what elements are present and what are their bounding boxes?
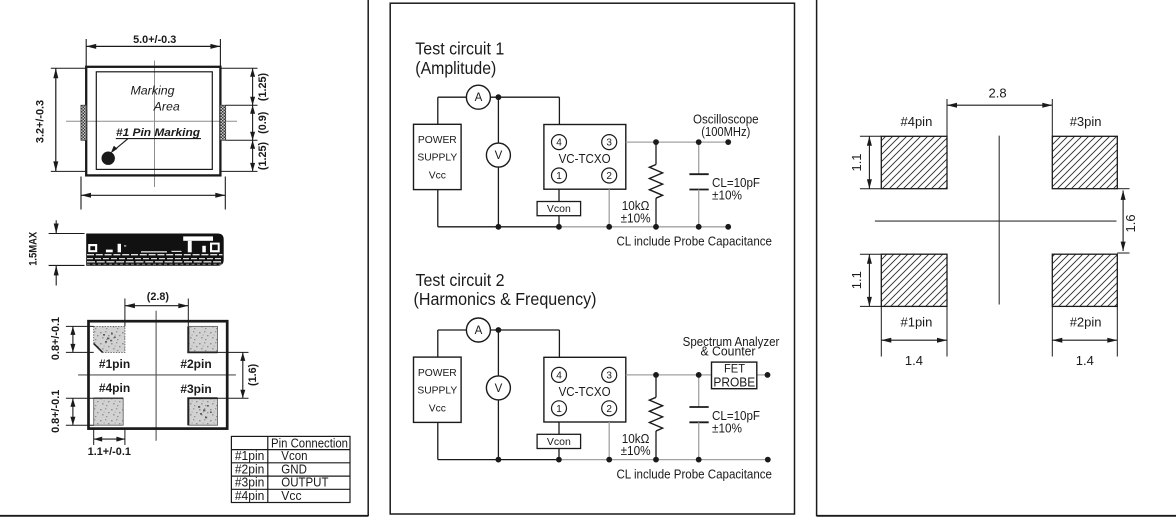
wire: Vcon to rail (circuit 1): [558, 216, 560, 227]
VC-TCXO pin 3: [602, 367, 617, 382]
svg-text:Vcc: Vcc: [281, 488, 302, 503]
svg-text:A: A: [475, 92, 483, 104]
svg-text:±10%: ±10%: [712, 421, 742, 435]
capacitor C1 bottom lead, gray: [698, 190, 700, 227]
svg-text:#2pin: #2pin: [180, 357, 211, 371]
svg-text:2.8: 2.8: [989, 86, 1007, 101]
resistor R2 zigzag: [649, 397, 662, 431]
FET PROBE box: [712, 362, 757, 389]
voltmeter V (circuit 2): [486, 376, 510, 400]
svg-text:CL include Probe Capacitance: CL include Probe Capacitance: [616, 235, 772, 249]
Vcon box (circuit 1): [537, 202, 581, 216]
pad #3 inner edge shadow: [187, 398, 189, 426]
land 2.8 dimension line: [947, 104, 1052, 106]
power supply box (circuit 1): [414, 124, 462, 189]
svg-text:POWER: POWER: [418, 368, 457, 379]
svg-text:(1.25): (1.25): [257, 73, 269, 102]
ground rail junction nodes (circuit 2): [496, 457, 502, 463]
svg-text:SUPPLY: SUPPLY: [417, 153, 457, 164]
svg-text:A: A: [475, 325, 483, 337]
bottom unlabeled dimension line (across castellations): [81, 194, 225, 196]
wire: power supply to ammeter (circuit 1): [438, 96, 467, 98]
land 1.1 upper dimension line: [868, 136, 870, 188]
Vcon box (circuit 2): [537, 434, 581, 448]
rail terminal nodes (circuit 2): [765, 457, 771, 463]
svg-text:Test circuit 1: Test circuit 1: [415, 39, 504, 59]
land 2.8 extension lines: [946, 99, 948, 136]
land 1.4 left dimension line: [881, 339, 947, 341]
left panel frame border: [367, 0, 369, 516]
1.1 dimension line: [94, 438, 125, 440]
svg-text:(1.6): (1.6): [247, 363, 259, 386]
1.5MAX dimension extension lines: [49, 233, 85, 235]
right panel frame border: [816, 0, 818, 516]
svg-text:(100MHz): (100MHz): [701, 125, 750, 139]
bottom view vertical centerline: [155, 311, 157, 441]
svg-text:POWER: POWER: [418, 135, 457, 146]
voltmeter V (circuit 1): [486, 143, 510, 167]
VC-TCXO pin 1: [552, 401, 567, 416]
svg-text:Vcc: Vcc: [429, 404, 446, 415]
svg-text:3: 3: [606, 370, 612, 381]
land pad #4 (top-left, hatched): [881, 136, 947, 188]
svg-text:(0.9): (0.9): [257, 111, 269, 134]
pad #3 dense speckle cluster: [198, 405, 212, 418]
land pad #2 (bottom-right, hatched): [1052, 254, 1117, 306]
resistor R1 zigzag: [649, 165, 662, 199]
right castellation (hatched): [220, 105, 226, 140]
wire: ammeter to VC-TCXO (circuit 2): [490, 329, 559, 331]
#1 pin marking dot: [102, 152, 115, 165]
pad #4 (bottom-left): [94, 398, 124, 425]
land pad #3 (top-right, hatched): [1052, 136, 1117, 188]
svg-text:VC-TCXO: VC-TCXO: [559, 384, 611, 399]
svg-text:CL include Probe Capacitance: CL include Probe Capacitance: [616, 467, 772, 481]
dimension 5.0 extension lines: [85, 39, 87, 67]
output rail from pin 3, gray (circuit 1): [626, 141, 728, 143]
svg-text:#4pin: #4pin: [235, 488, 265, 503]
bottom dimension extension lines: [80, 177, 82, 210]
ammeter A (circuit 1): [466, 85, 490, 109]
dimension (0.9) line: [252, 105, 254, 140]
wire: pin 2 down to rail, gray (circuit 1): [608, 189, 610, 227]
capacitor C2 top lead, gray: [698, 375, 700, 407]
VC-TCXO pin 3: [602, 135, 617, 150]
marking area inner rectangle: [96, 72, 212, 170]
svg-text:(1.25): (1.25): [257, 142, 269, 171]
svg-text:±10%: ±10%: [712, 189, 742, 203]
dimension 5.0 line: [86, 45, 220, 47]
output rail junction nodes (circuit 2): [653, 372, 659, 378]
svg-text:#4pin: #4pin: [99, 381, 130, 395]
rail terminal nodes (circuit 1): [725, 224, 731, 230]
VC-TCXO pin 1: [552, 168, 567, 183]
resistor R1 10k leads: [655, 142, 657, 164]
svg-text:#1 Pin Marking: #1 Pin Marking: [116, 127, 200, 139]
land pattern crosshair horizontal: [875, 220, 1117, 222]
svg-text:5.0+/-0.3: 5.0+/-0.3: [133, 34, 176, 46]
svg-text:(Amplitude): (Amplitude): [415, 58, 496, 78]
svg-text:#1pin: #1pin: [900, 315, 932, 330]
0.8 lower dimension line: [72, 398, 74, 425]
svg-text:PROBE: PROBE: [713, 375, 755, 389]
ammeter A (circuit 2): [466, 318, 490, 342]
right side chain dimension extension lines: [220, 67, 257, 69]
resistor R2 10k leads: [655, 375, 657, 397]
capacitor C2 plates: [689, 406, 708, 408]
VC-TCXO pin 2: [602, 168, 617, 183]
svg-text:2: 2: [606, 404, 612, 415]
svg-text:#4pin: #4pin: [900, 114, 932, 129]
top view horizontal centerline: [66, 120, 237, 122]
svg-text:4: 4: [556, 370, 562, 381]
power supply box (circuit 2): [414, 357, 462, 422]
svg-text:1.6: 1.6: [1123, 214, 1138, 232]
capacitor C1 top lead, gray: [698, 142, 700, 174]
svg-text:3: 3: [606, 138, 612, 149]
svg-text:1.4: 1.4: [1076, 353, 1094, 368]
dimension (1.25) lower line: [252, 140, 254, 171]
1.5MAX dimension arrows (outside): [55, 220, 57, 233]
land 1.4 right dimension line: [1052, 339, 1117, 341]
svg-text:1.4: 1.4: [905, 353, 923, 368]
wire: pin 1 to Vcon box (circuit 2): [558, 422, 560, 434]
svg-text:Test circuit 2: Test circuit 2: [416, 270, 505, 290]
VC-TCXO pin 2: [602, 401, 617, 416]
svg-text:0.8+/-0.1: 0.8+/-0.1: [50, 317, 62, 360]
wire: power supply to ammeter (circuit 2): [438, 329, 467, 331]
svg-text:±10%: ±10%: [621, 211, 651, 225]
side view package body: [86, 234, 224, 266]
pad #2 inner edge shadow: [187, 326, 189, 353]
svg-text:4: 4: [556, 138, 562, 149]
VC-TCXO U2 box: [544, 357, 626, 422]
svg-text:SUPPLY: SUPPLY: [417, 386, 457, 397]
svg-text:V: V: [495, 150, 503, 162]
output rail from pin 3, gray (circuit 2): [626, 374, 712, 376]
wire: power supply bottom to rail (circuit 1): [437, 190, 439, 227]
(2.8) dimension line: [125, 305, 188, 307]
land pad #1 (bottom-left, hatched): [881, 254, 947, 306]
capacitor C2 bottom lead, gray: [698, 422, 700, 459]
svg-text:Vcon: Vcon: [547, 203, 571, 215]
left castellation (hatched): [81, 105, 87, 140]
svg-text:3.2+/-0.3: 3.2+/-0.3: [35, 100, 47, 143]
svg-text:(2.8): (2.8): [147, 291, 170, 303]
wire: junction to voltmeter to ground rail (circuit 1): [497, 97, 499, 143]
land 1.1 lower dimension line: [868, 254, 870, 306]
(2.8) extension lines: [124, 299, 126, 327]
(1.6) dimension line: [242, 352, 244, 398]
svg-text:VC-TCXO: VC-TCXO: [559, 151, 611, 166]
svg-text:V: V: [495, 383, 503, 395]
#1 pin marking leader line: [116, 138, 201, 140]
output rail junction nodes (circuit 1): [653, 139, 659, 145]
pad #4 top edge shadow: [94, 397, 124, 399]
wire: junction to voltmeter to ground rail (circuit 2): [497, 330, 499, 376]
svg-text:1: 1: [556, 171, 562, 182]
svg-text:#3pin: #3pin: [180, 382, 211, 396]
dimension (1.25) upper line: [252, 68, 254, 105]
pad #1 chamfer line: [94, 344, 103, 353]
ground rail junction nodes (circuit 1): [496, 224, 502, 230]
svg-text:Marking: Marking: [130, 84, 174, 98]
wire: pin 2 down to rail, gray (circuit 2): [608, 422, 610, 460]
pad #1 dense speckle cluster: [103, 333, 116, 343]
svg-text:#1pin: #1pin: [99, 357, 130, 371]
wire: pin 1 to Vcon box (circuit 1): [558, 189, 560, 201]
package outline (bottom view): [89, 321, 228, 428]
middle panel frame border: [390, 3, 794, 514]
top view vertical centerline: [154, 61, 156, 188]
svg-text:1: 1: [556, 404, 562, 415]
VC-TCXO U1 box: [544, 125, 626, 190]
svg-text:FET: FET: [724, 361, 745, 375]
side view body white details: [88, 236, 220, 252]
capacitor C1 plates: [689, 173, 708, 175]
pad #3 (bottom-right): [188, 398, 217, 425]
svg-text:#3pin: #3pin: [1070, 114, 1102, 129]
ground rail gray segment (circuit 1): [559, 226, 728, 228]
pin connection table: [231, 436, 350, 502]
0.8 upper dimension line: [72, 326, 74, 352]
dimension 3.2 extension lines: [51, 67, 86, 69]
package outline (top view): [86, 67, 220, 176]
svg-text:1.1+/-0.1: 1.1+/-0.1: [88, 446, 131, 458]
svg-text:2: 2: [606, 171, 612, 182]
svg-text:0.8+/-0.1: 0.8+/-0.1: [50, 390, 62, 433]
wire: ammeter to VC-TCXO (circuit 1): [490, 96, 559, 98]
svg-text:Vcc: Vcc: [429, 171, 446, 182]
ground rail black segment (circuit 2): [438, 459, 559, 461]
ground rail black segment (circuit 1): [438, 226, 559, 228]
svg-text:1.5MAX: 1.5MAX: [27, 231, 39, 266]
svg-text:±10%: ±10%: [621, 444, 651, 458]
bottom view horizontal centerline: [78, 374, 236, 376]
pad #2 (top-right): [188, 326, 217, 352]
svg-text:1.1: 1.1: [849, 271, 864, 289]
VC-TCXO pin 4: [552, 135, 567, 150]
wire: power supply bottom to rail (circuit 2): [437, 422, 439, 459]
svg-text:& Counter: & Counter: [701, 344, 757, 358]
svg-text:(Harmonics & Frequency): (Harmonics & Frequency): [414, 289, 597, 309]
node: ammeter junction (circuit 2): [496, 327, 502, 333]
land 1.6 dimension line: [1122, 190, 1124, 251]
pad #1 (top-left, chamfered): [94, 326, 125, 352]
VC-TCXO pin 4: [552, 367, 567, 382]
svg-text:1.1: 1.1: [849, 153, 864, 171]
dimension 3.2 line: [55, 68, 57, 171]
svg-text:Vcon: Vcon: [547, 436, 571, 448]
node: ammeter junction (circuit 1): [496, 94, 502, 100]
svg-text:Area: Area: [153, 100, 180, 114]
land pattern crosshair vertical: [998, 136, 1000, 305]
ground rail gray segment (circuit 2): [559, 459, 768, 461]
side view bottom stripe band: [87, 254, 223, 256]
wire: Vcon to rail (circuit 2): [558, 449, 560, 460]
svg-text:#2pin: #2pin: [1070, 315, 1102, 330]
